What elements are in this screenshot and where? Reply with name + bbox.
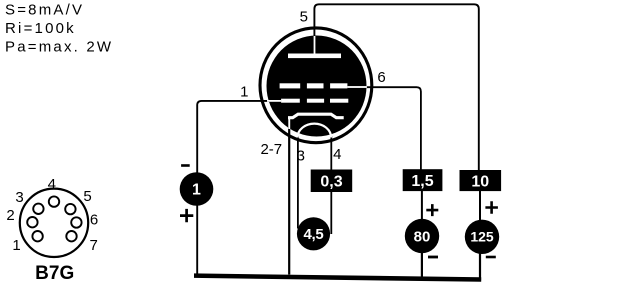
tube V1 inner black disc xyxy=(267,36,367,137)
svg-text:1: 1 xyxy=(12,237,20,254)
svg-text:3: 3 xyxy=(15,189,23,206)
wire 80 battery to bottom rail xyxy=(421,253,423,277)
svg-text:4: 4 xyxy=(333,146,341,163)
svg-text:3: 3 xyxy=(297,148,305,165)
resistor box 10 xyxy=(460,170,502,191)
cathode bent line xyxy=(288,114,344,118)
wire cathode pins 2-7 to bottom rail xyxy=(288,120,290,275)
socket hole pin5 xyxy=(65,204,75,214)
svg-text:S=8mA/V: S=8mA/V xyxy=(5,2,84,19)
svg-text:2: 2 xyxy=(6,207,14,224)
B7G socket outline xyxy=(20,189,88,257)
screen battery 80 xyxy=(405,219,439,253)
tube V1 envelope ring xyxy=(260,28,372,143)
svg-text:7: 7 xyxy=(90,237,98,254)
wire control grid pin1 to grid battery xyxy=(197,101,281,275)
minus of 125 battery xyxy=(486,256,496,259)
wire 1,5-box to 80 battery xyxy=(421,191,423,221)
socket hole pin6 xyxy=(71,217,81,227)
svg-text:B7G: B7G xyxy=(35,263,74,284)
grid g1 dash row (pin 1) xyxy=(281,99,348,103)
heater battery 4,5 xyxy=(297,217,330,250)
wire 0,3-box to 4,5 battery xyxy=(330,191,332,234)
anode battery 125 xyxy=(465,220,499,254)
wire heater pin3 to 4,5 battery xyxy=(297,136,299,229)
svg-text:4: 4 xyxy=(48,176,56,193)
svg-text:4,5: 4,5 xyxy=(304,226,324,243)
svg-text:10: 10 xyxy=(471,173,489,190)
resistor box 1,5 xyxy=(403,169,443,191)
svg-text:1: 1 xyxy=(240,84,248,101)
socket hole pin2 xyxy=(27,217,37,227)
svg-text:6: 6 xyxy=(90,211,98,228)
wire 10-box to 125 battery xyxy=(479,191,481,221)
heater filament arc xyxy=(298,124,332,138)
grid g1 lead inside disc to pin 1 xyxy=(267,100,281,102)
resistor box 0,3 xyxy=(311,170,353,193)
wire heater pin4 upper to 0,3-box xyxy=(330,136,332,171)
socket hole pin3 xyxy=(33,204,43,214)
wire anode pin5 to top rail to HT plus branch xyxy=(314,4,478,170)
plus of 80 battery xyxy=(426,204,438,216)
wire 125 battery to bottom rail xyxy=(479,253,481,281)
svg-text:Pa=max. 2W: Pa=max. 2W xyxy=(5,39,113,56)
svg-text:Ri=100k: Ri=100k xyxy=(5,20,76,37)
grid bias battery 1 xyxy=(180,172,214,206)
svg-text:5: 5 xyxy=(83,188,91,205)
svg-text:125: 125 xyxy=(470,229,494,245)
bottom rail (common negative) xyxy=(194,273,481,281)
minus of grid battery xyxy=(181,164,190,167)
socket hole pin1 xyxy=(32,231,42,241)
grid g2 lead inside disc to pin 6 xyxy=(347,86,367,88)
socket hole pin4 xyxy=(49,196,59,206)
svg-text:1,5: 1,5 xyxy=(411,173,433,190)
svg-text:80: 80 xyxy=(414,228,431,245)
svg-text:2-7: 2-7 xyxy=(260,141,282,158)
minus of 80 battery xyxy=(428,256,438,259)
plus of grid battery xyxy=(180,209,193,222)
anode lead inside disc (pin 5) xyxy=(314,36,316,54)
svg-text:0,3: 0,3 xyxy=(320,174,342,191)
socket hole pin7 xyxy=(66,231,76,241)
svg-text:5: 5 xyxy=(300,9,308,26)
wire screen grid pin6 to 1,5-box xyxy=(352,87,421,170)
svg-text:6: 6 xyxy=(377,69,385,86)
plus of 125 battery xyxy=(485,201,498,213)
grid g2 dash row (pin 6) xyxy=(280,83,348,88)
anode plate bar xyxy=(288,54,341,59)
svg-text:1: 1 xyxy=(192,182,201,199)
cathode lead inside disc (pins 2-7) xyxy=(288,119,290,129)
